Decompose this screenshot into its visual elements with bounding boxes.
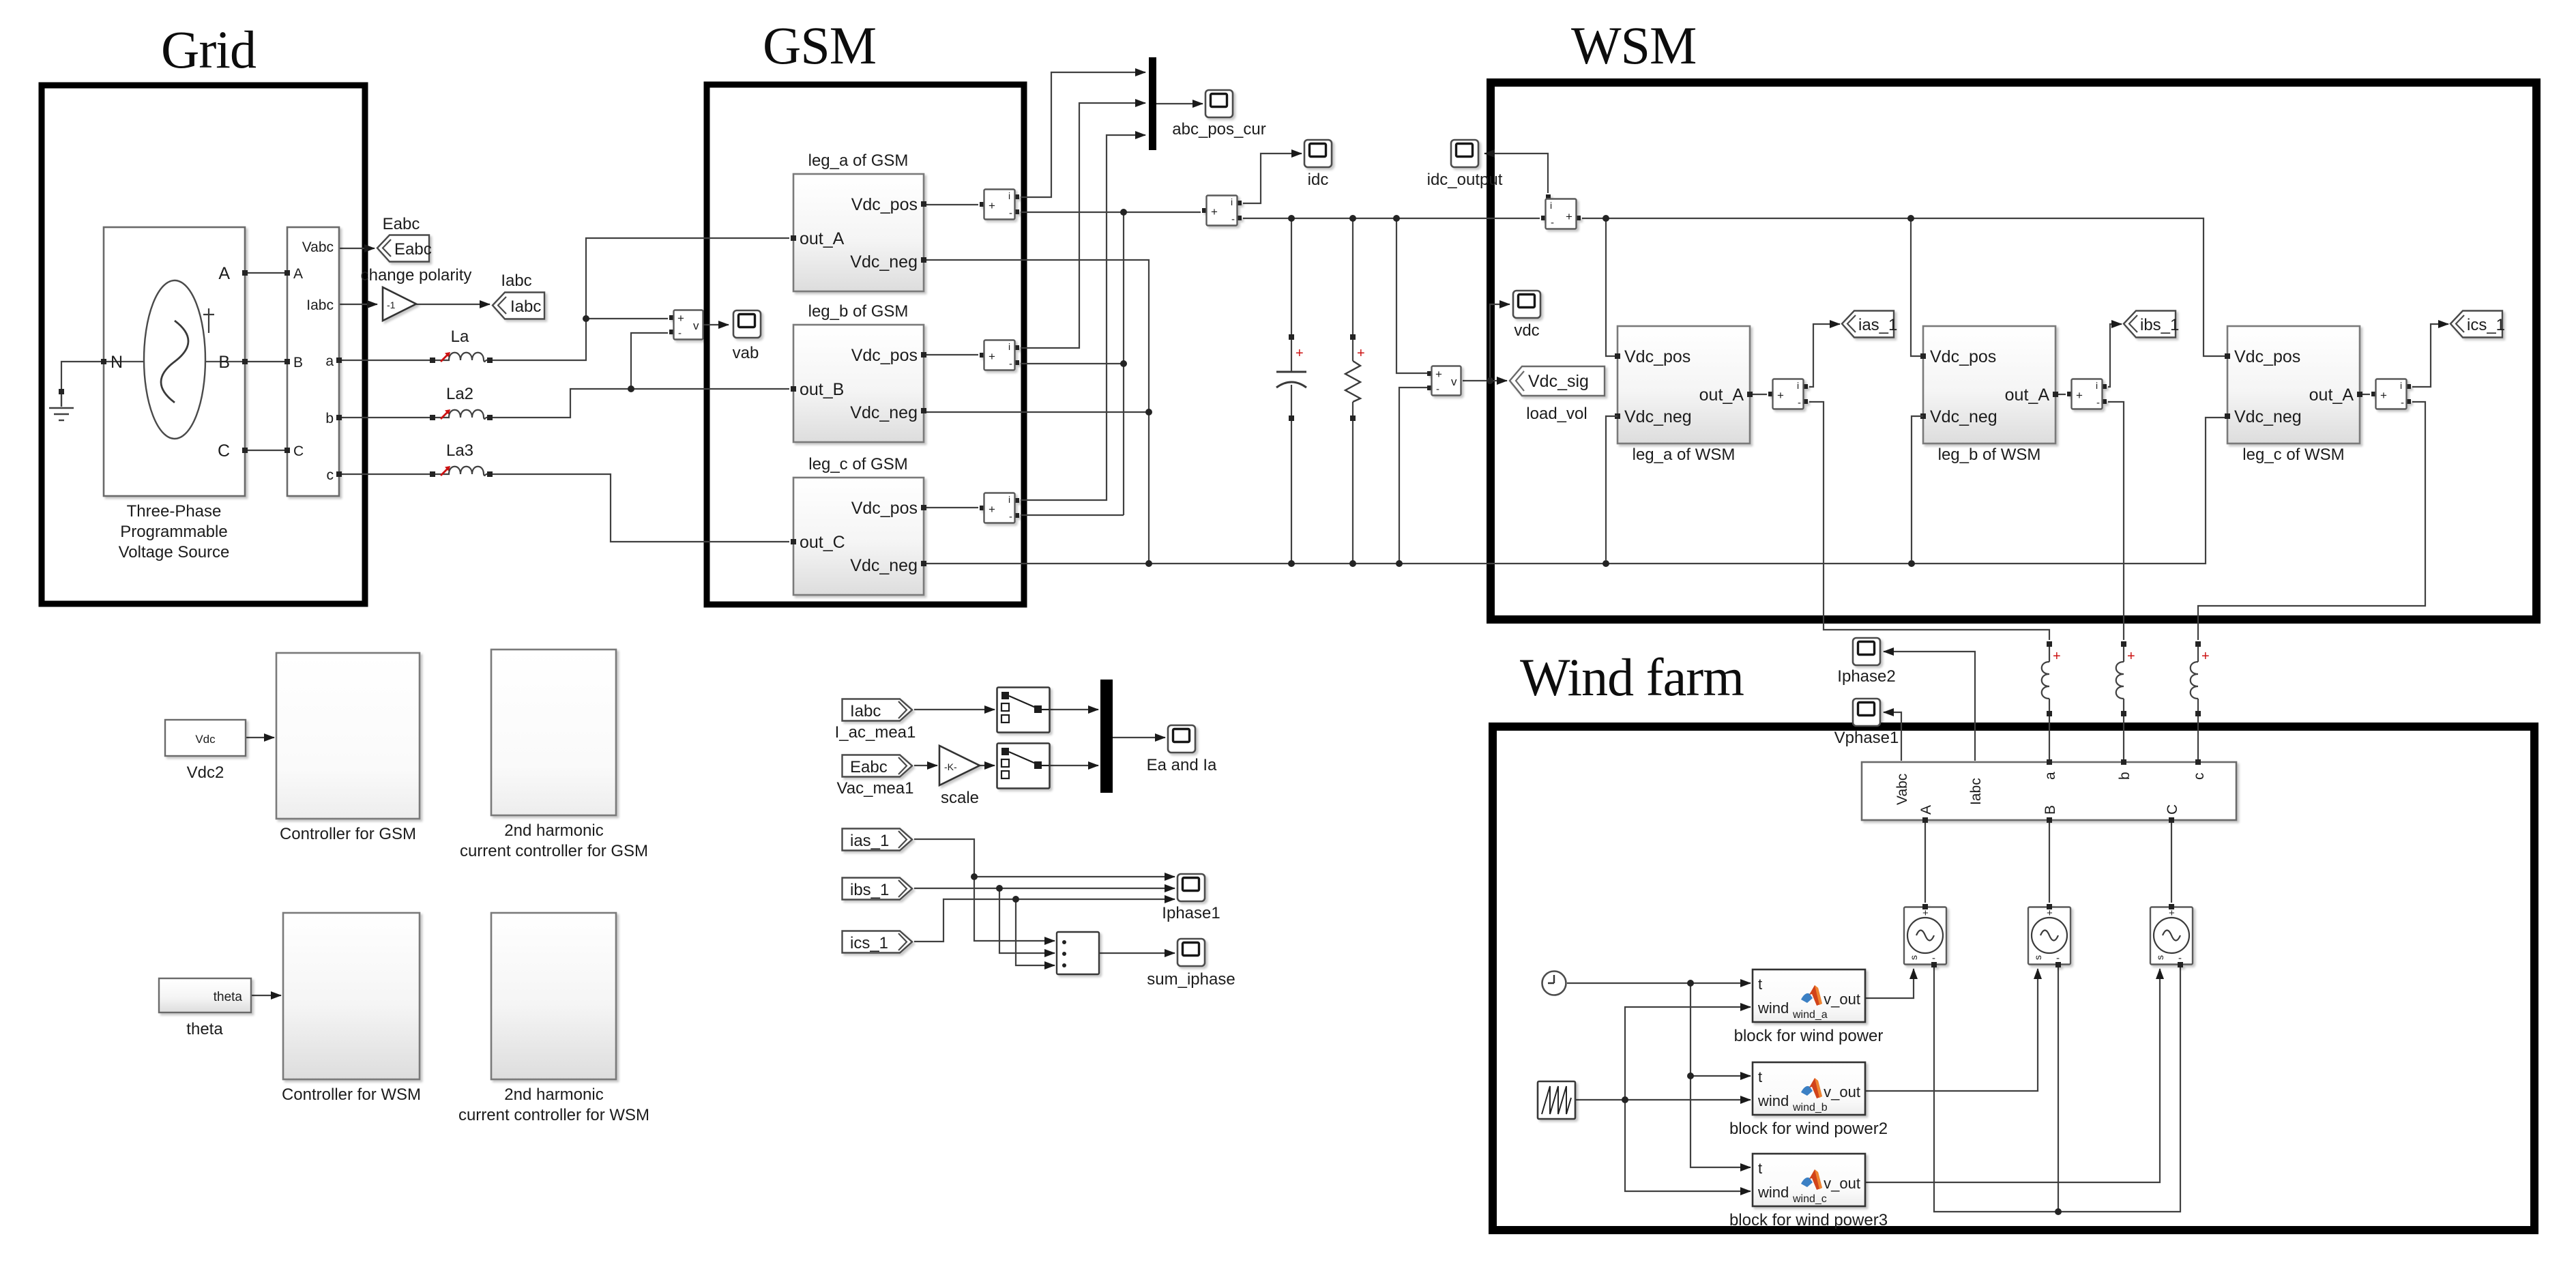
wire v_out1 to source A s (1865, 969, 1914, 998)
wire sum to sum_iphase scope (1099, 952, 1175, 954)
svg-text:Controller for GSM: Controller for GSM (280, 825, 416, 843)
wire leg_a WSM Vdc_neg (1606, 416, 1618, 561)
subsystem Controller for WSM (282, 913, 421, 1104)
svg-text:Voltage Source: Voltage Source (119, 543, 230, 561)
wire Vabc to Eabc tag (339, 248, 375, 249)
wire capacitor branch (1291, 218, 1292, 564)
wire inductor b to meas block (2123, 714, 2124, 761)
svg-text:out_A: out_A (2309, 385, 2354, 405)
svg-text:b: b (325, 411, 334, 426)
svg-text:wind_b: wind_b (1792, 1102, 1828, 1113)
svg-text:Eabc: Eabc (383, 215, 420, 233)
svg-text:Wind farm: Wind farm (1520, 647, 1744, 707)
wire t tap to block2 (1690, 1075, 1751, 1077)
subsystem leg_b of GSM (791, 302, 926, 442)
svg-text:ics_1: ics_1 (2467, 316, 2505, 334)
wire leg_a Vdc_pos to ammeter (924, 204, 978, 205)
wire ias_1 branch to sum (974, 877, 1055, 941)
svg-text:C: C (2165, 804, 2180, 815)
WSM section box (1491, 83, 2536, 619)
svg-text:Iabc: Iabc (306, 297, 334, 313)
wire dc bus to load voltmeter + (1396, 218, 1427, 373)
goto tag ias_1 (1842, 311, 1894, 338)
svg-text:Eabc: Eabc (394, 240, 432, 259)
wire leg_c WSM out to ammeter (2360, 394, 2370, 395)
svg-text:C: C (218, 441, 230, 461)
ammeter leg_a WSM (1768, 379, 1808, 409)
controlled voltage source C (2150, 904, 2193, 967)
node res top (1349, 215, 1356, 222)
ground port (59, 389, 64, 394)
svg-text:leg_c of GSM: leg_c of GSM (808, 455, 907, 473)
node source B minus (2055, 1208, 2062, 1215)
svg-text:ics_1: ics_1 (850, 934, 888, 952)
svg-text:block for wind power3: block for wind power3 (1729, 1211, 1888, 1229)
svg-text:v_out: v_out (1824, 991, 1860, 1008)
wire ics_1 to Iphase1 (914, 899, 1175, 942)
svg-text:GSM: GSM (763, 16, 876, 75)
svg-text:I_ac_mea1: I_ac_mea1 (835, 723, 916, 742)
svg-text:sum_iphase: sum_iphase (1147, 970, 1235, 989)
svg-text:ias_1: ias_1 (1858, 316, 1897, 334)
svg-text:Vdc_pos: Vdc_pos (851, 346, 918, 365)
svg-text:abc_pos_cur: abc_pos_cur (1172, 120, 1265, 138)
svg-text:La3: La3 (446, 441, 473, 460)
wire leg_a WSM out to ammeter (1750, 394, 1767, 395)
wire ibs_1 branch to sum (999, 888, 1055, 953)
subsystem leg_a of WSM (1615, 326, 1753, 464)
node voltmeter minus (1396, 560, 1403, 567)
wire gain to Iabc tag (416, 304, 490, 305)
inductor La3 (430, 466, 493, 477)
svg-text:+: + (1357, 346, 1365, 361)
wire dc bus drop to leg_b WSM (1911, 218, 1922, 356)
inductor phase c wind (2191, 641, 2210, 716)
svg-text:ias_1: ias_1 (850, 832, 889, 850)
svg-text:wind_c: wind_c (1792, 1193, 1827, 1205)
svg-text:-1: -1 (387, 300, 396, 310)
scope vab (733, 310, 761, 338)
wire mux2 to scope Ea and Ia (1113, 737, 1165, 738)
wire source C to measure C (245, 450, 287, 451)
svg-text:wind: wind (1757, 1092, 1789, 1109)
wire leg_b Vdc_pos to ammeter (924, 354, 978, 355)
svg-text:Vabc: Vabc (302, 239, 334, 255)
wire inductor c to meas block (2197, 714, 2199, 761)
subsystem leg_a of GSM (791, 151, 926, 291)
svg-text:Three-Phase: Three-Phase (127, 502, 222, 521)
clock block (1542, 972, 1566, 995)
wire ammeter a minus to dc ammeter (1021, 211, 1201, 213)
svg-text:Programmable: Programmable (120, 523, 227, 541)
node cap top (1288, 215, 1295, 222)
from tag theta (159, 978, 251, 1038)
svg-text:Vdc_pos: Vdc_pos (1624, 347, 1690, 366)
node b junction (628, 385, 634, 392)
wire dc negative bus (924, 418, 2226, 564)
wire source B to measure B (245, 361, 287, 362)
node a junction (583, 315, 589, 322)
wire ammeter b i to mux (1021, 103, 1145, 348)
scope idc_output (1451, 140, 1478, 167)
svg-text:out_B: out_B (800, 380, 844, 399)
svg-text:t: t (1758, 1068, 1762, 1085)
wire sources minus common (1934, 967, 2180, 1212)
node ibs junction (996, 885, 1003, 892)
inductor phase a wind (2042, 641, 2061, 716)
svg-text:Iabc: Iabc (501, 272, 531, 290)
node dc plus gsm (1120, 209, 1127, 216)
wire dc ammeter i to idc scope (1243, 154, 1302, 203)
subsystem leg_b of WSM (1920, 326, 2058, 464)
goto tag Vdc_sig (1510, 366, 1605, 423)
wire ammeter c minus to node (1021, 514, 1124, 516)
gain change polarity (361, 266, 472, 321)
wire ammeter c i to mux (1021, 135, 1145, 500)
svg-text:ibs_1: ibs_1 (850, 881, 889, 899)
scope Iphase1 (1177, 874, 1205, 901)
svg-text:v_out: v_out (1824, 1083, 1860, 1100)
inductor La (430, 352, 493, 363)
mux Ea and Ia (1100, 680, 1113, 793)
ammeter leg_b WSM (2067, 379, 2107, 409)
node wind (1622, 1096, 1628, 1103)
svg-text:b: b (2117, 772, 2133, 780)
scope abc_pos_cur (1205, 90, 1233, 117)
wire source A to measure A (245, 272, 287, 274)
svg-text:A: A (293, 266, 303, 282)
wire b to La2 (339, 417, 430, 418)
svg-text:load_vol: load_vol (1526, 405, 1587, 423)
wire Iabc meas to Iphase2 scope (1884, 652, 1975, 761)
wire ics_1 branch to sum (1016, 899, 1055, 965)
svg-text:Iabc: Iabc (1968, 778, 1984, 805)
wire wind vertical up (1625, 1007, 1751, 1100)
wire source N to ground (61, 362, 104, 389)
svg-text:Iabc: Iabc (510, 297, 541, 316)
svg-text:Vdc_pos: Vdc_pos (851, 499, 918, 518)
voltage measurement vab (669, 310, 703, 340)
svg-text:Vdc_neg: Vdc_neg (1930, 407, 1997, 426)
three-phase programmable voltage source U1 (101, 227, 248, 561)
wire v_out3 to source C s (1865, 969, 2160, 1182)
goto tag Eabc (377, 235, 429, 262)
wire gain scale to selector2 (980, 765, 995, 766)
wire ammeter a i to mux (1021, 72, 1145, 197)
wind farm VI measurement block (1862, 759, 2236, 823)
svg-text:-K-: -K- (944, 761, 957, 772)
wire Iabc to gain (339, 304, 377, 305)
wire WSM dc plus bus (1582, 218, 2226, 356)
svg-text:leg_c of WSM: leg_c of WSM (2242, 446, 2344, 464)
wire meas A to source A (1924, 821, 1926, 903)
svg-text:wind: wind (1757, 1184, 1789, 1201)
svg-text:leg_a of GSM: leg_a of GSM (808, 151, 909, 170)
matlab function block for wind power2 (1729, 1062, 1888, 1138)
svg-text:A: A (218, 264, 230, 283)
node ias junction (971, 873, 978, 880)
dc link capacitor C1 (1276, 372, 1306, 388)
wire Vabc meas to Vphase1 scope (1884, 712, 1901, 761)
wire La2 to out_B (493, 389, 789, 418)
wire leg_b Vdc_neg to node (924, 411, 1149, 413)
svg-text:La2: La2 (446, 385, 473, 403)
Wind farm section box (1493, 727, 2534, 1230)
scope Vphase1 (1853, 699, 1880, 726)
wire ammeter c minus to inductor c (2198, 402, 2425, 640)
wire clock to wind blocks t (1567, 982, 1751, 984)
svg-text:out_A: out_A (2005, 385, 2050, 405)
from tag ias_1 (843, 829, 913, 851)
svg-text:idc: idc (1308, 171, 1329, 189)
from tag Iabc (843, 699, 913, 721)
dc ammeter GSM side (1202, 196, 1242, 226)
svg-text:block for wind power2: block for wind power2 (1729, 1120, 1888, 1138)
wire dc bus drop to leg_a WSM (1606, 218, 1616, 356)
svg-text:c: c (2191, 773, 2207, 781)
svg-text:Vdc_neg: Vdc_neg (2234, 407, 2302, 426)
svg-text:vab: vab (733, 344, 759, 362)
wire dc plus vertical node (1123, 212, 1124, 515)
svg-text:v_out: v_out (1824, 1175, 1860, 1192)
wire leg_a Vdc_neg down (924, 260, 1149, 564)
wire repeating sequence to wind2 (1575, 1099, 1751, 1100)
svg-text:Eabc: Eabc (850, 758, 888, 776)
svg-text:+: + (1296, 346, 1304, 361)
wire inductor a to meas block (2049, 714, 2050, 761)
svg-text:theta: theta (214, 990, 243, 1004)
svg-text:Vphase1: Vphase1 (1834, 729, 1899, 747)
wire mux to scope abc_pos_cur (1156, 103, 1203, 104)
svg-text:Iphase2: Iphase2 (1837, 667, 1895, 686)
svg-text:B: B (2043, 805, 2058, 815)
wire Iabc from tag to selector1 (914, 709, 995, 710)
svg-text:c: c (327, 467, 334, 483)
svg-text:B: B (293, 355, 303, 370)
node clock 1 (1687, 980, 1694, 987)
goto tag ibs_1 (2124, 311, 2176, 338)
svg-text:Vdc: Vdc (195, 733, 216, 746)
node ics junction (1012, 896, 1019, 903)
svg-text:vdc: vdc (1514, 321, 1539, 340)
wire vab meter to vab scope (703, 324, 729, 325)
from tag Vdc (165, 720, 246, 782)
repeating sequence block (1538, 1081, 1575, 1119)
controlled voltage source A (1904, 904, 1946, 967)
scope Iphase2 (1853, 638, 1880, 665)
scope idc (1304, 140, 1332, 167)
wire meas C to source C (2171, 821, 2172, 903)
svg-text:ibs_1: ibs_1 (2140, 316, 2179, 334)
subsystem 2nd harmonic current controller for GSM (460, 650, 648, 860)
voltage measurement load_vol (1427, 366, 1461, 396)
svg-text:leg_a of WSM: leg_a of WSM (1633, 446, 1736, 464)
wire theta tag to controller WSM (251, 995, 281, 996)
wire t vertical (1690, 983, 1751, 1167)
selector block 1 (997, 688, 1050, 733)
node Vdc_neg vertical top (1145, 409, 1152, 415)
inductor La2 (430, 409, 493, 420)
svg-text:2nd harmonic: 2nd harmonic (504, 1085, 603, 1104)
dc ammeter WSM side (1541, 194, 1581, 229)
node dc bus leg_b wsm (1907, 215, 1914, 222)
svg-text:Vabc: Vabc (1894, 774, 1910, 805)
svg-text:current controller for GSM: current controller for GSM (460, 842, 648, 860)
GSM section box (707, 85, 1024, 604)
svg-text:2nd harmonic: 2nd harmonic (504, 821, 603, 840)
sum block (1057, 932, 1099, 974)
wire leg_b WSM Vdc_neg (1912, 416, 1923, 561)
wire leg_b WSM out to ammeter (2055, 394, 2066, 395)
svg-text:a: a (325, 353, 334, 369)
svg-text:theta: theta (186, 1020, 223, 1038)
from tag ibs_1 (843, 878, 913, 900)
ammeter leg_a GSM (980, 190, 1019, 220)
wire ammeter ias to tag (1809, 324, 1840, 387)
Grid section box (42, 85, 365, 604)
svg-text:Iphase1: Iphase1 (1162, 904, 1220, 922)
svg-text:leg_b of GSM: leg_b of GSM (808, 302, 909, 321)
ammeter leg_c GSM (980, 493, 1019, 523)
three-phase VI measurement block (284, 227, 342, 496)
wire meas B to source B (2049, 821, 2050, 903)
wire selector1 to mux2 (1049, 709, 1098, 710)
from tag ics_1 (843, 931, 913, 953)
svg-text:Vac_mea1: Vac_mea1 (837, 779, 914, 798)
svg-text:Ea and Ia: Ea and Ia (1147, 756, 1217, 774)
node Vdc_neg bus 1 (1145, 560, 1152, 567)
wire WSM ammeter i to idc_output scope (1484, 154, 1548, 193)
svg-text:t: t (1758, 1160, 1762, 1177)
node leg_b wsm neg (1908, 560, 1915, 567)
svg-text:wind_a: wind_a (1792, 1009, 1828, 1021)
wire wind vertical down (1625, 1100, 1751, 1191)
wire ammeter ibs to tag (2108, 324, 2122, 387)
inductor phase b wind (2116, 641, 2135, 716)
from tag Eabc (843, 755, 913, 777)
node res bottom (1349, 560, 1356, 567)
subsystem leg_c of GSM (791, 455, 926, 595)
svg-text:wind: wind (1757, 1000, 1789, 1017)
svg-text:Vdc_neg: Vdc_neg (1624, 407, 1692, 426)
svg-text:Vdc2: Vdc2 (187, 763, 224, 782)
svg-text:t: t (1758, 976, 1762, 993)
goto tag ics_1 (2450, 311, 2502, 338)
node cap bottom (1288, 560, 1295, 567)
wire node a to vab + (586, 318, 668, 319)
wire ias_1 to Iphase1 (914, 839, 1175, 877)
svg-text:Grid: Grid (161, 20, 257, 79)
subsystem Controller for GSM (276, 653, 420, 843)
svg-text:out_C: out_C (800, 533, 845, 552)
controlled voltage source B (2028, 904, 2070, 967)
svg-text:Vdc_pos: Vdc_pos (1930, 347, 1996, 366)
wire node to vdc scope (1490, 304, 1510, 381)
wire ammeter b minus to inductor b (2108, 402, 2124, 640)
svg-text:current controller for WSM: current controller for WSM (458, 1106, 649, 1124)
svg-text:scale: scale (941, 789, 979, 807)
wire resistor branch (1352, 218, 1353, 564)
subsystem leg_c of WSM (2225, 326, 2362, 464)
wire load voltmeter - to bus (1399, 388, 1427, 564)
wire ibs_1 to Iphase1 (914, 888, 1175, 889)
svg-text:B: B (218, 353, 230, 372)
gain scale (939, 746, 980, 807)
scope Ea and Ia (1168, 725, 1195, 753)
scope sum_iphase (1177, 939, 1205, 966)
svg-text:leg_b of WSM: leg_b of WSM (1938, 446, 2041, 464)
matlab function block for wind power (1734, 969, 1884, 1045)
svg-text:Vdc_neg: Vdc_neg (850, 252, 918, 272)
wire La3 to out_C (493, 474, 789, 542)
goto tag Iabc (493, 293, 544, 319)
wire ammeter b minus to node (1021, 363, 1124, 364)
svg-text:idc_output: idc_output (1427, 171, 1503, 189)
wire a to La (339, 360, 430, 361)
svg-text:Vdc_sig: Vdc_sig (1528, 372, 1589, 391)
node leg_a wsm neg (1602, 560, 1609, 567)
dc link resistor R1 (1345, 361, 1360, 402)
ground (49, 394, 74, 420)
wire Eabc from tag to gain scale (914, 765, 937, 766)
wire load voltmeter to Vdc_sig tag (1463, 380, 1507, 381)
svg-text:N: N (111, 353, 123, 372)
svg-text:La: La (451, 327, 469, 346)
node dc bus leg_a wsm (1602, 215, 1609, 222)
wire selector2 to mux2 (1049, 765, 1098, 766)
node vdc sig (1487, 377, 1493, 384)
svg-text:Iabc: Iabc (850, 702, 881, 720)
wire c to La3 (339, 473, 430, 475)
svg-text:a: a (2043, 772, 2058, 780)
ammeter leg_c WSM (2371, 379, 2411, 409)
wire ammeter ics to tag (2412, 324, 2448, 387)
svg-text:out_A: out_A (1699, 385, 1744, 405)
svg-text:Vdc_pos: Vdc_pos (851, 195, 918, 214)
subsystem 2nd harmonic current controller for WSM (458, 913, 649, 1124)
matlab function block for wind power3 (1729, 1154, 1888, 1229)
svg-text:Vdc_neg: Vdc_neg (850, 556, 918, 575)
svg-text:out_A: out_A (800, 229, 845, 248)
wire ammeter a minus to inductor a (1809, 402, 2049, 640)
svg-text:block for wind power: block for wind power (1734, 1027, 1884, 1045)
svg-text:C: C (293, 443, 304, 459)
node dc plus gsm b (1120, 360, 1127, 367)
node loadvol top (1393, 215, 1400, 222)
wire v_out2 to source B s (1865, 969, 2038, 1091)
svg-text:Vdc_pos: Vdc_pos (2234, 347, 2300, 366)
wire leg_c Vdc_pos to ammeter (924, 507, 978, 508)
selector block 2 (997, 744, 1050, 789)
wire Vdc tag to controller GSM (246, 737, 274, 738)
svg-text:Vdc_neg: Vdc_neg (850, 403, 918, 422)
mux abc currents (1149, 57, 1156, 150)
svg-text:A: A (1918, 805, 1934, 815)
scope vdc (1513, 291, 1540, 318)
ammeter leg_b GSM (980, 340, 1019, 370)
node clock 2 (1687, 1073, 1694, 1079)
wire node b to vab - (631, 333, 668, 389)
wire dc ammeter out to WSM ammeter (1243, 218, 1540, 219)
svg-text:change polarity: change polarity (361, 266, 472, 285)
wire La to out_A (493, 238, 789, 360)
svg-text:Controller for WSM: Controller for WSM (282, 1085, 421, 1104)
svg-text:WSM: WSM (1571, 16, 1696, 75)
wire source B minus (2058, 967, 2059, 1212)
